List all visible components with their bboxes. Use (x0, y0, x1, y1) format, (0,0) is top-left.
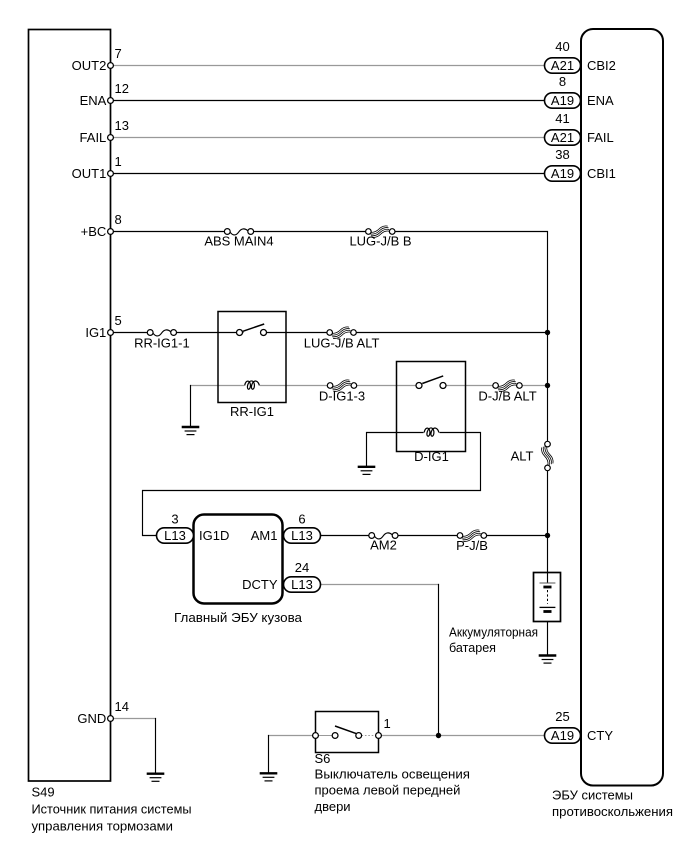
fusible link P-J/B (456, 529, 488, 553)
wire OUT1 to CBI1 (111, 173, 545, 175)
wire battery to ground (547, 612, 549, 656)
pin 13 FAIL of S49 (80, 118, 129, 145)
svg-text:8: 8 (559, 74, 566, 89)
svg-text:3: 3 (171, 511, 178, 526)
wire bus below ALT fusible to battery (547, 471, 549, 583)
svg-text:5: 5 (115, 313, 122, 328)
svg-text:LUG-J/B ALT: LUG-J/B ALT (304, 335, 380, 350)
svg-text:25: 25 (555, 709, 569, 724)
svg-text:RR-IG1: RR-IG1 (230, 404, 274, 419)
pin 3 L13 (IG1D) (157, 511, 194, 543)
relay D-IG1 (397, 362, 466, 465)
svg-text:A19: A19 (551, 166, 574, 181)
svg-text:24: 24 (295, 560, 309, 575)
svg-text:L13: L13 (291, 528, 313, 543)
svg-text:батарея: батарея (449, 640, 496, 655)
fuse AM2 (369, 531, 398, 553)
pin 8 A19 (ENA) of anti-skid ECU (545, 74, 615, 108)
wire AM1 row (321, 535, 548, 537)
svg-text:OUT2: OUT2 (72, 58, 107, 73)
fuse RR-IG1-1 (134, 328, 190, 351)
svg-text:IG1D: IG1D (199, 528, 229, 543)
wire FAIL to FAIL (111, 137, 545, 139)
junction node IG1/bus (545, 330, 550, 335)
fusible link ALT (vertical) (511, 441, 555, 470)
svg-text:D-IG1-3: D-IG1-3 (319, 389, 365, 404)
svg-text:двери: двери (315, 799, 351, 814)
pin 8 +BC of S49 (81, 212, 122, 239)
wire IG1 row (111, 332, 548, 334)
svg-text:7: 7 (115, 46, 122, 61)
svg-text:41: 41 (555, 111, 569, 126)
block S49 source of brake control power (29, 30, 192, 834)
ground G3 (battery) (539, 656, 557, 664)
svg-text:12: 12 (115, 81, 129, 96)
wire ENA to ENA (111, 100, 545, 102)
svg-text:1: 1 (384, 716, 391, 731)
svg-text:IG1: IG1 (85, 325, 106, 340)
switch S6 (313, 712, 470, 814)
svg-text:8: 8 (115, 212, 122, 227)
svg-text:ABS MAIN4: ABS MAIN4 (204, 234, 273, 249)
svg-text:FAIL: FAIL (80, 130, 107, 145)
wire stem to ground G1 (190, 386, 192, 427)
svg-text:S49: S49 (32, 785, 55, 800)
main body ECU block (174, 515, 303, 625)
coil of D-IG1 (424, 428, 440, 438)
svg-text:A19: A19 (551, 93, 574, 108)
svg-text:AM2: AM2 (370, 538, 397, 553)
svg-text:GND: GND (77, 711, 106, 726)
svg-text:OUT1: OUT1 (72, 166, 107, 181)
pin 40 A21 (CBI2) of anti-skid ECU (545, 39, 616, 73)
svg-text:CBI2: CBI2 (587, 58, 616, 73)
wire D-IG1 coil to IG1D pin 3 (143, 433, 481, 536)
svg-text:13: 13 (115, 118, 129, 133)
wire DCTY down to S6 row (438, 585, 440, 736)
ground G2 (D-IG1 coil) (358, 467, 376, 475)
svg-text:6: 6 (298, 511, 305, 526)
svg-text:Источник питания системы: Источник питания системы (32, 802, 192, 817)
fusible link LUG-J/B ALT (304, 326, 380, 350)
svg-text:DCTY: DCTY (242, 577, 278, 592)
wire RR-IG1 coil row (191, 385, 548, 387)
pin 38 A19 (CBI1) of anti-skid ECU (545, 147, 616, 181)
svg-text:D-IG1: D-IG1 (414, 449, 449, 464)
svg-text:проема левой передней: проема левой передней (315, 783, 461, 798)
svg-text:ENA: ENA (587, 93, 614, 108)
pin 6 L13 (AM1) (284, 511, 321, 543)
wire OUT2 to CBI2 (111, 65, 545, 67)
junction node D-J/B ALT/bus (545, 383, 550, 388)
svg-text:FAIL: FAIL (587, 130, 614, 145)
fusible link LUG-J/B B (349, 225, 411, 249)
ground G4 (S49 GND) (147, 774, 165, 782)
wire S6 to CTY (379, 735, 545, 737)
svg-text:управления тормозами: управления тормозами (32, 819, 174, 834)
svg-text:ALT: ALT (511, 449, 534, 464)
pin 14 GND of S49 (77, 699, 129, 726)
pin 5 IG1 of S49 (85, 313, 121, 340)
junction node AM1/bus (545, 533, 550, 538)
svg-text:+BC: +BC (81, 224, 107, 239)
svg-text:Выключатель освещения: Выключатель освещения (315, 767, 471, 782)
svg-text:AM1: AM1 (251, 528, 278, 543)
pin 1 OUT1 of S49 (72, 154, 122, 181)
svg-text:CTY: CTY (587, 728, 613, 743)
svg-text:L13: L13 (164, 528, 186, 543)
pin 7 OUT2 of S49 (72, 46, 122, 73)
fusible link D-IG1-3 (319, 379, 365, 404)
svg-text:A19: A19 (551, 728, 574, 743)
svg-text:LUG-J/B B: LUG-J/B B (349, 234, 411, 249)
wire DCTY row (321, 584, 439, 586)
svg-text:Главный ЭБУ кузова: Главный ЭБУ кузова (174, 610, 303, 625)
wire D-IG1 coil to ground G2 (367, 433, 397, 467)
svg-text:A21: A21 (551, 130, 574, 145)
pin 12 ENA of S49 (80, 81, 129, 108)
pin 25 A19 (CTY) of anti-skid ECU (545, 709, 614, 743)
block anti-skid ECU (552, 29, 673, 819)
svg-text:P-J/B: P-J/B (456, 538, 488, 553)
coil of RR-IG1 (244, 381, 260, 391)
fuse ABS MAIN4 (204, 227, 273, 249)
svg-text:L13: L13 (291, 577, 313, 592)
svg-text:CBI1: CBI1 (587, 166, 616, 181)
ground G5 (S6) (260, 773, 278, 781)
wire +BC bus (111, 232, 548, 442)
fusible link D-J/B ALT (478, 379, 536, 404)
wire S6 to ground G5 (269, 735, 316, 737)
svg-text:ЭБУ системы: ЭБУ системы (552, 788, 633, 803)
svg-text:14: 14 (115, 699, 129, 714)
svg-text:Аккумуляторная: Аккумуляторная (449, 624, 538, 639)
svg-text:S6: S6 (315, 751, 331, 766)
svg-text:38: 38 (555, 147, 569, 162)
wire D-IG1 coil row inside relay (397, 432, 466, 434)
battery (449, 573, 561, 655)
relay RR-IG1 (218, 312, 286, 419)
svg-text:1: 1 (115, 154, 122, 169)
pin 24 L13 (DCTY) (284, 560, 321, 592)
svg-text:A21: A21 (551, 58, 574, 73)
svg-text:RR-IG1-1: RR-IG1-1 (134, 335, 190, 350)
wire GND to ground G4 (111, 718, 156, 720)
ground G1 (RR-IG1 coil) (182, 427, 200, 435)
svg-text:противоскольжения: противоскольжения (552, 804, 673, 819)
svg-text:D-J/B ALT: D-J/B ALT (478, 389, 536, 404)
svg-text:40: 40 (555, 39, 569, 54)
pin 41 A21 (FAIL) of anti-skid ECU (545, 111, 614, 145)
junction node DCTY/S6 row (436, 733, 441, 738)
svg-text:ENA: ENA (80, 93, 107, 108)
